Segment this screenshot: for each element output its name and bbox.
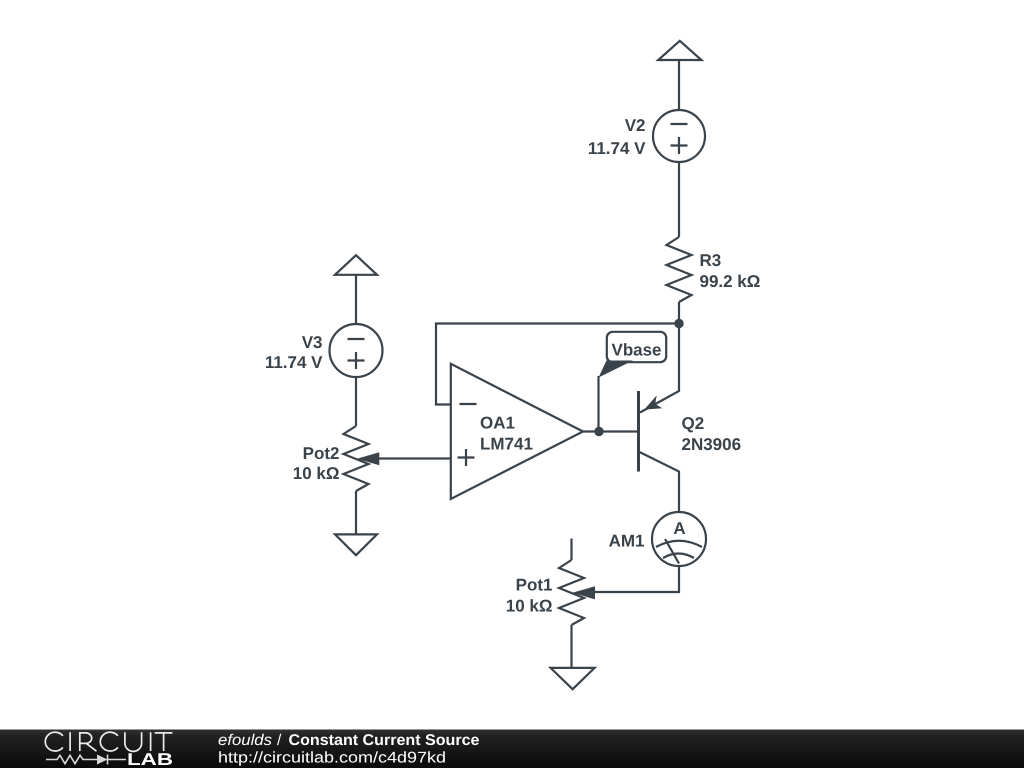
svg-text:Q2: Q2 <box>682 414 705 433</box>
footer bar <box>0 730 1024 768</box>
wire emitter vertical <box>640 324 679 413</box>
transistor Q2 collector <box>640 452 680 512</box>
wire V3 to Pot2 <box>355 377 357 426</box>
svg-text:10 kΩ: 10 kΩ <box>293 464 340 483</box>
potentiometer Pot2 <box>344 426 369 491</box>
label AM1 <box>609 532 645 551</box>
logo schematic resistor-diode <box>46 755 126 765</box>
svg-text:AM1: AM1 <box>609 532 645 551</box>
svg-text:A: A <box>673 519 685 538</box>
node A (R3/feedback/emitter junction) <box>674 319 683 328</box>
ground (bottom) <box>551 668 595 689</box>
power supply symbol (V2 rail) <box>658 41 701 60</box>
wire feedback (node to inverting input) <box>436 324 679 405</box>
Pot1 top stub <box>570 539 572 561</box>
svg-text:V2: V2 <box>625 116 646 135</box>
ground (left) <box>335 534 377 555</box>
svg-text:99.2 kΩ: 99.2 kΩ <box>700 272 761 291</box>
Pot2 wiper arrow <box>357 452 379 465</box>
label R3 value <box>700 251 761 291</box>
svg-text:V3: V3 <box>302 333 323 352</box>
voltage source V2 <box>653 110 705 162</box>
label V3 value <box>265 333 323 372</box>
wire Pot2 to ground <box>355 491 357 534</box>
svg-text:efoulds: efoulds <box>218 732 272 749</box>
label OA1 LM741 <box>480 414 533 454</box>
svg-text:Pot1: Pot1 <box>516 576 553 595</box>
transistor Q2 base bar <box>637 391 640 472</box>
Pot1 wiper arrow <box>573 586 596 599</box>
logo CIRCUIT <box>45 732 172 751</box>
label Q2 2N3906 <box>682 414 742 454</box>
wire power to V3 <box>355 274 357 324</box>
power supply symbol (V3 rail) <box>335 255 377 275</box>
svg-text:LAB: LAB <box>127 750 173 768</box>
svg-text:OA1: OA1 <box>480 414 515 433</box>
svg-text:LM741: LM741 <box>480 435 533 454</box>
svg-text:11.74 V: 11.74 V <box>588 139 646 158</box>
label Pot2 value <box>293 444 340 483</box>
svg-text:Vbase: Vbase <box>612 340 662 359</box>
wire op-amp output to base <box>583 430 637 432</box>
svg-text:Constant Current Source: Constant Current Source <box>289 732 480 749</box>
transistor Q2 emitter arrow <box>644 395 662 409</box>
label V2 value <box>588 116 646 158</box>
ammeter AM1 <box>652 512 706 566</box>
svg-text:11.74 V: 11.74 V <box>265 353 323 372</box>
wire power to V2 <box>678 59 680 110</box>
svg-text:Pot2: Pot2 <box>303 444 340 463</box>
svg-text:R3: R3 <box>700 251 722 270</box>
wire R3 to node <box>678 302 680 324</box>
wire AM1 to Pot1 wiper <box>593 566 679 592</box>
op-amp OA1 <box>451 364 583 499</box>
resistor R3 <box>667 237 692 302</box>
potentiometer Pot1 <box>559 560 584 625</box>
wire V2 to R3 <box>678 162 680 237</box>
label flag Vbase <box>599 332 667 432</box>
voltage source V3 <box>330 324 383 377</box>
svg-text:http://circuitlab.com/c4d97kd: http://circuitlab.com/c4d97kd <box>218 749 446 766</box>
label Pot1 value <box>506 576 553 616</box>
svg-text:/: / <box>277 732 282 749</box>
wire Pot1 to ground <box>570 625 572 668</box>
wire wiper to non-inverting input <box>379 457 451 459</box>
svg-text:2N3906: 2N3906 <box>682 435 742 454</box>
svg-text:10 kΩ: 10 kΩ <box>506 597 553 616</box>
node B (base node) <box>594 427 603 436</box>
